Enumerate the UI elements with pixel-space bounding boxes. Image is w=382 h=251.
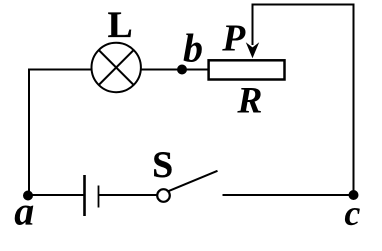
switch blade	[168, 171, 217, 191]
wire node a to battery	[28, 194, 84, 196]
node a junction dot	[23, 191, 33, 201]
wire left vertical	[28, 69, 30, 196]
svg-text:c: c	[344, 193, 360, 233]
wire node b to rheostat	[182, 69, 209, 71]
wire bottom-right (switch to node c)	[223, 194, 354, 196]
wire lamp to node b	[141, 69, 182, 71]
svg-text:L: L	[108, 5, 133, 46]
svg-text:S: S	[152, 145, 173, 186]
wire top-left horizontal (a-branch to lamp)	[28, 69, 92, 71]
wiper arrow P lead	[252, 5, 254, 46]
switch S pivot circle	[157, 189, 170, 202]
node b junction dot	[177, 65, 187, 75]
node c junction dot	[349, 190, 359, 200]
svg-text:b: b	[183, 25, 203, 70]
svg-text:R: R	[236, 81, 262, 122]
wire top horizontal	[252, 4, 355, 6]
rheostat R body	[209, 60, 285, 79]
wire battery to switch	[99, 194, 158, 196]
battery short plate	[98, 186, 100, 208]
wiper arrowhead	[246, 42, 259, 58]
svg-text:P: P	[221, 17, 246, 59]
lamp L symbol	[92, 43, 141, 92]
battery long plate	[83, 175, 86, 216]
wire right vertical	[353, 5, 355, 196]
